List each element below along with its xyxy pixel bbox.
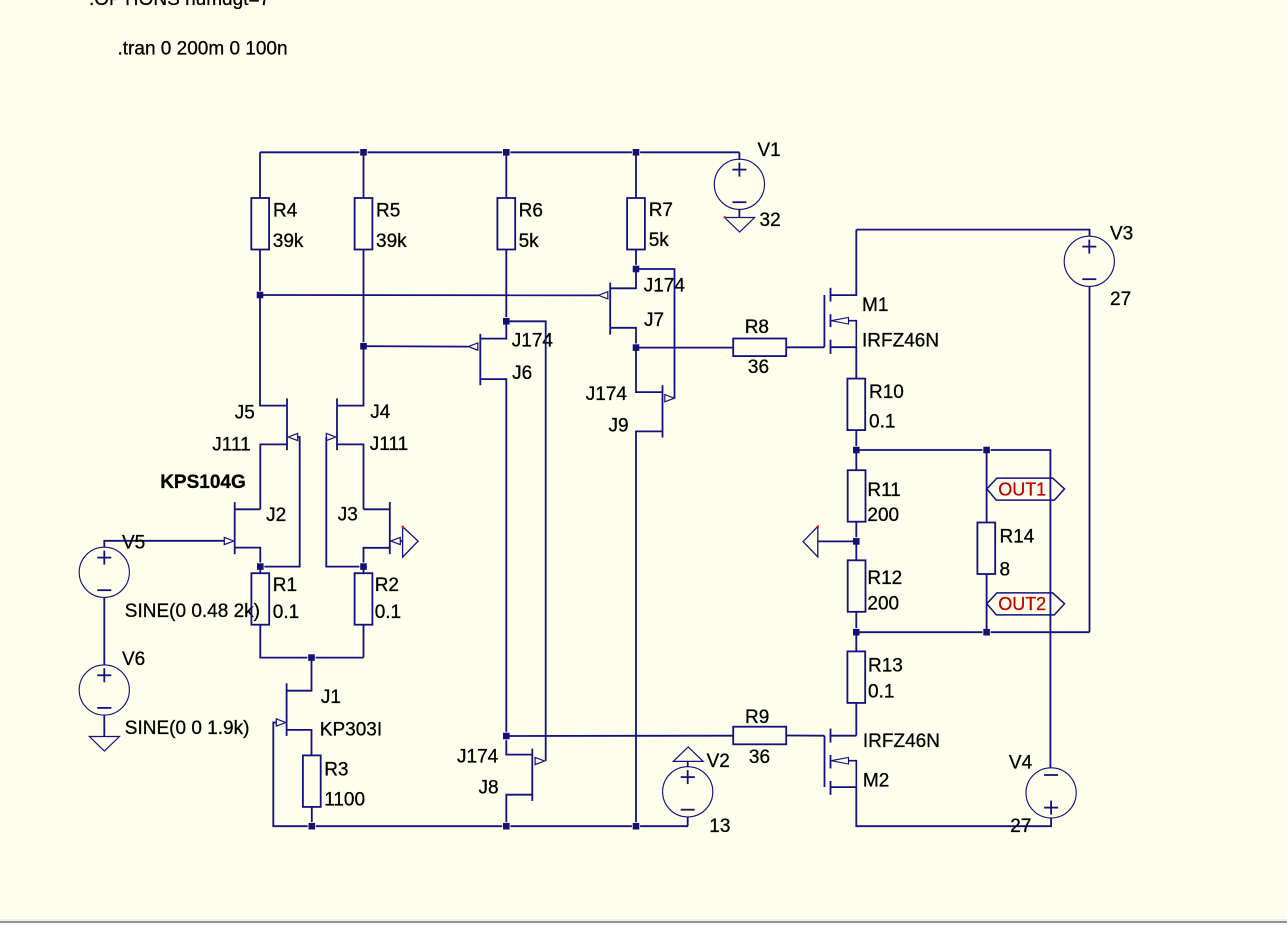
svg-text:J4: J4 [370,402,391,423]
svg-text:R9: R9 [745,707,769,728]
svg-text:13: 13 [709,816,730,837]
resistor R9 [733,727,786,745]
wire R9 to M2 gate [786,735,824,737]
wire V1 plus stub [738,152,740,160]
resistor R2 [355,573,373,625]
junction tail node / J1 drain [308,654,315,661]
red corner pixel at mid-node arrow flag [817,526,819,528]
svg-text:OUT2: OUT2 [998,594,1046,614]
wire R1 top stub [259,567,261,574]
svg-text:IRFZ46N: IRFZ46N [863,731,940,752]
wire R6 top [505,152,507,198]
wire R5 top [363,152,365,198]
resistor R12 [848,560,866,612]
wire R11 bottom to mid node [855,522,857,542]
body arrow M2 [831,757,848,764]
voltage source V5 [79,547,129,597]
wire R14 top [986,450,988,523]
wire rail R5-node to J6 gate [364,345,469,347]
svg-text:V1: V1 [758,140,781,161]
wire R11 top [855,450,857,470]
window bottom edge [0,919,1287,921]
svg-text:KPS104G: KPS104G [160,472,246,493]
wire V5 minus to V6 plus [103,597,105,665]
wire V5 plus to J2 gate [104,541,224,548]
junction J7 source / R8 / J9 drain [632,344,639,351]
svg-text:J8: J8 [479,778,499,799]
resistor R10 [847,379,865,431]
resistor R13 [847,651,865,703]
wire J5 gate to R1 top node [260,437,299,567]
wire mid node to arrow flag [818,540,857,542]
svg-text:J1: J1 [321,687,341,708]
svg-text:J2: J2 [266,505,286,526]
net flag OUT1 [987,478,1065,500]
resistor R5 [355,198,373,250]
svg-text:.tran 0 200m 0 100n: .tran 0 200m 0 100n [118,38,288,59]
transistor J5 J111 n-JFET [260,295,287,509]
wire J4 gate to R2 top node [326,437,363,567]
svg-text:V6: V6 [122,649,145,670]
svg-text:R5: R5 [376,200,400,221]
junction J3 source / R2 / J4 gate [360,563,367,570]
resistor R3 [303,755,321,807]
wire R4 bottom to node [259,250,261,296]
svg-text:J7: J7 [644,310,664,331]
svg-text:KP303I: KP303I [320,719,382,740]
svg-text:J9: J9 [609,415,629,436]
svg-text:OUT1: OUT1 [998,479,1046,499]
svg-text:V2: V2 [707,751,730,772]
resistor R11 [848,470,866,522]
gate arrow J9 [665,395,675,402]
junction rail / J9 source [632,823,639,830]
svg-text:J5: J5 [235,403,255,424]
red corner pixel at J3 gate flag [402,526,404,528]
resistor R8 [733,339,786,357]
wire M1 drain to V3 plus [856,230,1089,237]
voltage source V3 [1064,236,1114,286]
red corner pixel at V1 ground [724,216,727,218]
transistor J9 J174 p-JFET [636,348,663,827]
svg-text:27: 27 [1110,289,1131,310]
ground at V1 [725,218,755,233]
wire R2 bottom to tail node [363,625,365,658]
gate arrow J3 [391,537,401,544]
junction J8 drain / J6 source / R9 row [503,732,510,739]
ground at V2 (pointing up) [673,747,703,762]
transistor J8 J174 p-JFET [506,736,532,826]
wire V2 plus to ground [687,761,689,766]
voltage source V2 [663,767,713,817]
wire rail R4-node to J7 gate [260,294,598,296]
transistor M1 IRFZ46N NMOS [824,230,856,354]
transistor J3 n-JFET [364,502,390,566]
junction J2 source / R1 / J5 gate [257,563,264,570]
svg-text:200: 200 [867,593,899,614]
transistor J7 J174 p-JFET [610,269,636,348]
svg-text:36: 36 [749,747,770,768]
svg-text:M1: M1 [862,295,888,316]
wire OUT2 row to V3 minus [856,631,1089,633]
wire J7 drain node to J9 gate [636,269,675,398]
svg-text:39k: 39k [376,231,407,252]
transistor M2 IRFZ46N NMOS [825,729,857,795]
wire R13 bottom to M2 drain [855,703,857,736]
gate arrow J4 [326,433,336,440]
wire R13 top [855,632,857,651]
gate arrow J6 [468,343,478,350]
voltage source V1 [714,159,764,209]
svg-text:R10: R10 [869,382,904,403]
wire V3 minus down to OUT2 row [1089,286,1091,632]
svg-text:V5: V5 [122,532,145,553]
svg-text:0.1: 0.1 [868,682,894,703]
net flag OUT2 [987,593,1065,615]
wire R12 top [855,541,857,560]
net flag arrow (right) at J3 gate [403,527,419,558]
wire R7 top [635,152,637,198]
junction R12 / R13 / OUT2 row [853,629,860,636]
wire R5 bottom to node [363,250,365,347]
svg-text:R11: R11 [867,480,900,501]
junction R7 / J7 drain / J9 gate wire [632,265,639,272]
svg-text:R13: R13 [868,656,903,677]
net flag arrow (left) at R11/R12 node [803,526,818,557]
svg-text:J6: J6 [512,363,532,384]
svg-text:36: 36 [748,357,769,378]
wire R12 bottom to OUT2 row [855,612,857,632]
wire J1 gate to bottom rail [273,723,688,827]
svg-text:5k: 5k [649,230,670,251]
svg-text:R14: R14 [1000,526,1035,547]
svg-text:R12: R12 [867,568,902,589]
svg-text:27: 27 [1010,816,1031,837]
svg-text:V4: V4 [1009,753,1033,774]
voltage source V6 [79,665,129,715]
transistor J4 J111 n-JFET [337,346,364,509]
svg-text:8: 8 [1000,559,1011,580]
svg-text:0.1: 0.1 [869,411,895,432]
wire R6 bottom to J6 drain node [505,250,507,322]
wire R8 to M1 gate [786,346,824,348]
junction top rail / R5 [360,149,367,156]
resistor R7 [627,198,645,250]
gate arrow J2 [224,537,234,544]
transistor J1 KP303I n-JFET [287,658,312,756]
wire M2 source to V4 plus [856,787,1051,826]
transistor J2 n-JFET [235,502,261,566]
svg-text:SINE(0 0 1.9k): SINE(0 0 1.9k) [125,718,250,739]
svg-text:39k: 39k [273,231,304,252]
junction top rail / R7 [632,149,639,156]
resistor R1 [251,573,269,625]
svg-text:R4: R4 [273,200,298,221]
svg-text:200: 200 [867,505,899,526]
svg-text:1100: 1100 [324,790,365,811]
junction rail / J8 source [503,823,510,830]
svg-text:IRFZ46N: IRFZ46N [862,331,939,352]
wire rail to V2 minus [687,817,689,826]
wire R7 bottom to J7 drain node [635,250,637,270]
wire R3 bottom to rail [311,807,313,826]
svg-text:J174: J174 [512,330,554,351]
svg-text:V3: V3 [1110,224,1133,245]
svg-text:J174: J174 [644,275,686,296]
transistor J6 J174 p-JFET [480,321,506,736]
svg-text:J111: J111 [212,434,250,455]
svg-text:J174: J174 [457,747,499,768]
svg-text:J3: J3 [338,505,358,526]
gate arrow J7 [598,292,608,299]
junction OUT2 row / R14 bottom [983,629,990,636]
svg-text:SINE(0 0.48 2k): SINE(0 0.48 2k) [125,601,260,622]
junction rail / R3 [308,823,315,830]
svg-text:J174: J174 [586,384,628,405]
svg-text:R6: R6 [519,200,543,221]
resistor R6 [497,198,515,250]
resistor R14 [977,523,995,575]
gate arrow J8 [535,757,545,764]
wire J3 gate to flag [400,540,402,542]
junction R11 / R12 / flag wire [853,538,860,545]
svg-text:R7: R7 [649,200,673,221]
svg-text:5k: 5k [519,231,540,252]
svg-text:R2: R2 [375,575,399,596]
wire OUT1 row to V4 minus [856,450,1050,768]
junction R4 / J5 / gate rail [256,291,263,298]
ground at V6 [89,737,119,752]
svg-text:0.1: 0.1 [273,602,299,623]
junction R6 / J6 drain / J8 gate wire [503,318,510,325]
svg-text:J111: J111 [370,434,408,455]
wire J7 source node to R8 [636,347,733,349]
wire R1 bottom to tail node [260,625,363,658]
wire J6 drain node to J8 gate [506,321,545,761]
junction R5 / J4 / gate rail [360,343,367,350]
wire R14 bottom [986,574,988,632]
wire R10 bottom to OUT1 row [855,430,857,450]
resistor R4 [251,198,269,250]
junction OUT1 row / R14 [983,446,990,453]
wire V1 minus to ground [738,209,740,218]
svg-text:R1: R1 [273,575,297,596]
wire M1 source to R10 [855,347,857,378]
junction R10 / R11 / OUT1 row [853,446,860,453]
body arrow M1 [831,317,848,324]
svg-text:.OPTIONS numdgt=7: .OPTIONS numdgt=7 [89,0,270,10]
svg-text:R8: R8 [745,317,769,338]
wire V+ top rail [260,151,739,153]
svg-text:32: 32 [760,210,781,231]
gate arrow J5 [288,433,298,440]
voltage source V4 [1026,768,1076,818]
wire R2 top stub [363,567,365,574]
junction top rail / R6 [503,149,510,156]
svg-text:0.1: 0.1 [375,602,401,623]
gate arrow J1 [276,719,286,726]
svg-text:M2: M2 [863,770,889,791]
wire J8 drain node to R9 [506,735,733,737]
wire V6 minus to ground [103,715,105,737]
wire R4 top [259,152,261,198]
svg-text:R3: R3 [324,760,348,781]
